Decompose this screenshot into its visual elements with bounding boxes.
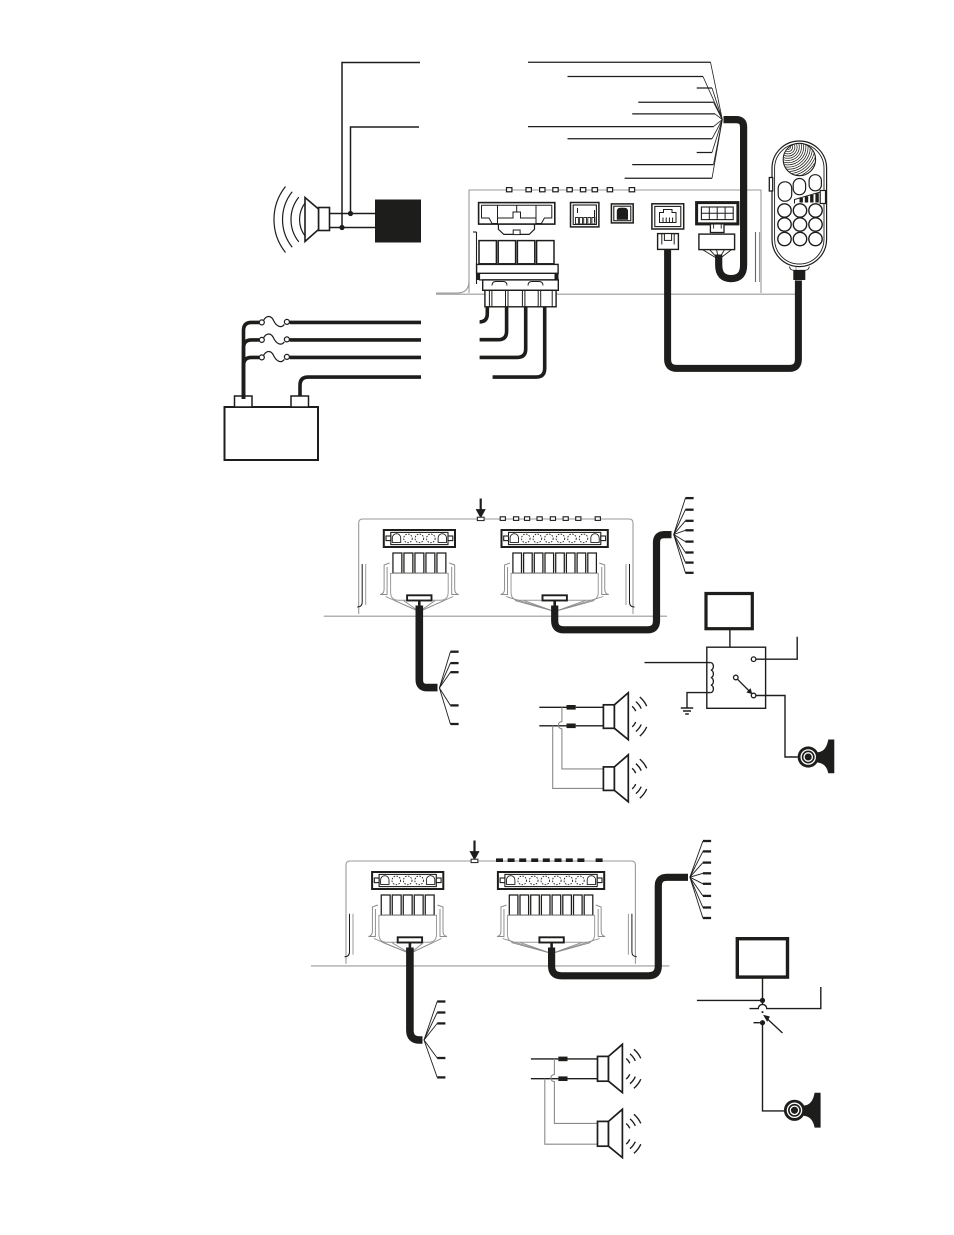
plug latch bar xyxy=(539,937,563,942)
plug latch bar xyxy=(398,937,422,942)
tick on horn feed xyxy=(754,1022,760,1024)
speaker SP-B xyxy=(603,755,628,802)
siren control head (box) xyxy=(706,594,752,629)
horn transfer relay K1 xyxy=(707,647,766,708)
speaker SP-A xyxy=(598,1044,623,1092)
wiring harness plug under amplifier xyxy=(368,905,447,942)
plug latch bar xyxy=(407,595,431,600)
speaker wire with splice (positive) xyxy=(539,705,603,710)
USB-B port on rear panel xyxy=(611,204,633,223)
8-position terminal strip xyxy=(502,530,608,547)
wire from vehicle horn switch to relay coil xyxy=(645,662,711,664)
relay coil xyxy=(711,663,714,693)
relay normally-closed contact xyxy=(751,657,756,662)
vehicle battery xyxy=(225,396,319,460)
5-position terminal strip xyxy=(372,872,443,889)
left speaker harness cable (bottom diagram) xyxy=(410,948,423,1041)
relay switch arm with arrow xyxy=(737,679,751,693)
microphone speaker grille xyxy=(757,116,819,178)
sound waves from speaker SP-B xyxy=(626,1114,641,1153)
accessory harness wire fan-out xyxy=(528,62,722,178)
plug wires gathering to cable xyxy=(502,939,599,954)
wire stub below junction xyxy=(762,1000,764,1004)
microphone volume slider xyxy=(795,191,826,204)
right accessory harness fan-out xyxy=(674,498,694,573)
DB accessory connector on rear panel xyxy=(697,203,738,233)
sound waves from siren speaker xyxy=(274,187,306,253)
right accessory harness cable (bottom diagram) xyxy=(552,877,688,976)
microphone function buttons xyxy=(778,175,821,202)
relay/fuse sockets xyxy=(381,895,434,915)
speaker wire with splice (positive) xyxy=(531,1057,598,1062)
relay common contact xyxy=(734,675,739,680)
relay/fuse sockets xyxy=(509,895,593,915)
battery positive wires with fuses xyxy=(244,316,422,399)
relay/fuse sockets xyxy=(513,553,596,573)
junction on speaker positive lead xyxy=(348,211,353,216)
right accessory harness fan-out (bottom diagram) xyxy=(690,841,711,918)
left speaker harness cable xyxy=(419,606,437,688)
amplifier rear chassis outline xyxy=(436,190,800,294)
horn wire with crossover hop xyxy=(750,987,821,1009)
power/speaker connector J1 on rear panel xyxy=(479,203,555,235)
wire from amplifier to siren speaker (positive) xyxy=(342,63,420,228)
relay / driver module (black box) xyxy=(375,200,421,243)
5-position terminal strip xyxy=(384,530,455,547)
speaker wire with splice (negative) xyxy=(539,724,603,729)
control wire from control head to relay xyxy=(729,629,731,675)
microphone plug in RJ11 jack xyxy=(658,234,679,250)
fuse block on rear panel xyxy=(476,241,558,307)
wire from amplifier to siren speaker (negative) xyxy=(351,127,420,214)
junction dot at horn feed xyxy=(760,1020,765,1025)
sound waves from speaker SP-A xyxy=(632,697,647,736)
plug wires gathering to cable xyxy=(506,597,603,612)
microphone side PTT button xyxy=(769,178,772,192)
chassis ground symbol xyxy=(681,708,693,714)
left speaker harness fan-out xyxy=(439,652,458,724)
parallel tap wires to second speaker xyxy=(553,707,604,788)
mounting arrow indicator xyxy=(476,499,485,521)
battery feed wires from fuse block xyxy=(480,307,545,377)
RJ45 jack on rear panel xyxy=(571,203,599,227)
wire from NC contact to vehicle horn switch xyxy=(756,637,797,659)
sound waves from speaker SP-B xyxy=(632,759,647,798)
vehicle horn xyxy=(798,740,834,773)
wiring harness plug under amplifier xyxy=(501,563,609,600)
speaker leads to relay module xyxy=(330,214,376,228)
sound waves from speaker SP-A xyxy=(626,1049,641,1088)
vent slots on rear panel xyxy=(507,188,635,192)
accessory harness cable loop xyxy=(719,120,744,279)
vehicle horn (bottom diagram) xyxy=(784,1093,820,1127)
wiring harness plug under amplifier xyxy=(380,563,459,600)
siren control head (bottom diagram) xyxy=(737,939,787,977)
wire from junction to vehicle horn (bottom diagram) xyxy=(763,1023,785,1111)
mounting arrow indicator xyxy=(470,841,479,863)
right accessory harness cable xyxy=(555,535,672,630)
wiring harness plug under amplifier xyxy=(497,905,605,942)
RJ11 microphone jack on rear panel xyxy=(652,204,684,229)
coiled microphone cable from RJ11 plug to microphone xyxy=(668,249,799,368)
accessory harness plug body xyxy=(699,234,735,250)
plug wires gathering to cable xyxy=(386,597,454,612)
relay coil ground wire xyxy=(687,693,711,708)
vent slots on chassis xyxy=(500,517,600,521)
left speaker harness fan-out (bottom diagram) xyxy=(424,1002,445,1078)
speaker wire with splice (negative) xyxy=(531,1076,598,1081)
microphone cord connector xyxy=(790,267,810,281)
junction dot at horn switch wire xyxy=(760,998,765,1003)
relay/fuse sockets xyxy=(393,553,446,573)
amplifier bottom-view chassis xyxy=(311,861,669,966)
amplifier bottom-view chassis xyxy=(324,519,667,616)
switch arm with arrow (bottom diagram) xyxy=(762,1011,783,1033)
wire from vehicle horn switch xyxy=(697,999,763,1001)
harness plug wire crimps xyxy=(703,250,732,260)
parallel tap wires to second speaker xyxy=(545,1059,598,1144)
speaker SP-A xyxy=(603,693,628,740)
junction on speaker negative lead xyxy=(339,225,344,230)
handheld microphone controller xyxy=(772,141,827,267)
8-position terminal strip xyxy=(498,872,604,889)
battery ground wire xyxy=(300,377,421,396)
siren speaker SP1 xyxy=(305,198,330,242)
microphone keypad buttons xyxy=(778,204,822,246)
plug wires gathering to cable xyxy=(374,939,442,954)
plug latch bar xyxy=(543,595,567,600)
speaker SP-B xyxy=(598,1109,623,1157)
relay normally-open contact xyxy=(751,693,756,698)
wire from NO contact to vehicle horn xyxy=(756,696,798,758)
control wire from control head xyxy=(762,977,764,1000)
vent slots on chassis xyxy=(496,858,603,862)
